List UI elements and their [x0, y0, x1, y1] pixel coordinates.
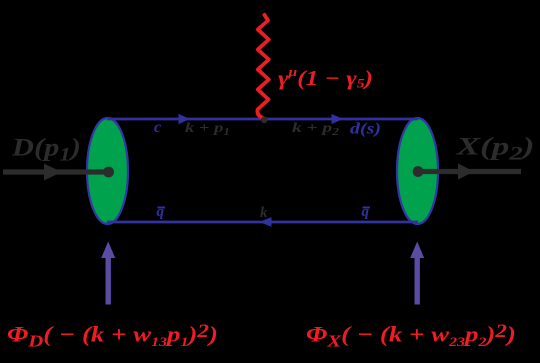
- wire: photon/weak-current wavy line: [257, 15, 268, 118]
- wire: incoming meson line (left black arrow shaft): [3, 169, 109, 174]
- node: left vertex dot: [103, 167, 114, 178]
- wire: antiquark propagator (bottom blue line): [107, 221, 418, 224]
- wire: outgoing meson line (right black arrow shaft): [417, 169, 521, 174]
- node: right antiquark label q-bar: [362, 204, 371, 220]
- svg-text:q: q: [157, 204, 165, 220]
- svg-text:d(s): d(s): [350, 121, 381, 138]
- node: right vertex dot: [413, 166, 424, 177]
- svg-text:q: q: [362, 204, 370, 220]
- node: arrowhead on d(s)-quark line: [332, 114, 344, 124]
- svg-text:k + p1: k + p1: [185, 121, 230, 138]
- svg-text:D(p1): D(p1): [11, 135, 81, 166]
- node: right meson blob (Phi_X vertex ellipse): [397, 118, 438, 224]
- svg-text:k: k: [260, 205, 268, 221]
- wire: c-quark propagator (top blue line): [107, 118, 418, 121]
- node: weak-current vertex dot: [261, 117, 268, 124]
- svg-text:c: c: [154, 119, 161, 136]
- node: right wave-function arrow (purple, pointing up): [410, 242, 424, 305]
- node: arrowhead on outgoing meson line: [458, 163, 474, 179]
- node: left meson blob (Phi_D vertex ellipse): [87, 118, 128, 224]
- svg-text:k + p2: k + p2: [292, 121, 339, 138]
- svg-text:X(p2): X(p2): [455, 134, 534, 165]
- node: arrowhead on incoming meson line: [44, 164, 62, 181]
- node: left wave-function arrow (purple, pointing up): [101, 242, 115, 305]
- node: arrowhead on antiquark line (pointing left): [260, 217, 272, 227]
- node: arrowhead on c-quark line: [179, 114, 191, 124]
- node: left antiquark label q-bar: [157, 204, 166, 220]
